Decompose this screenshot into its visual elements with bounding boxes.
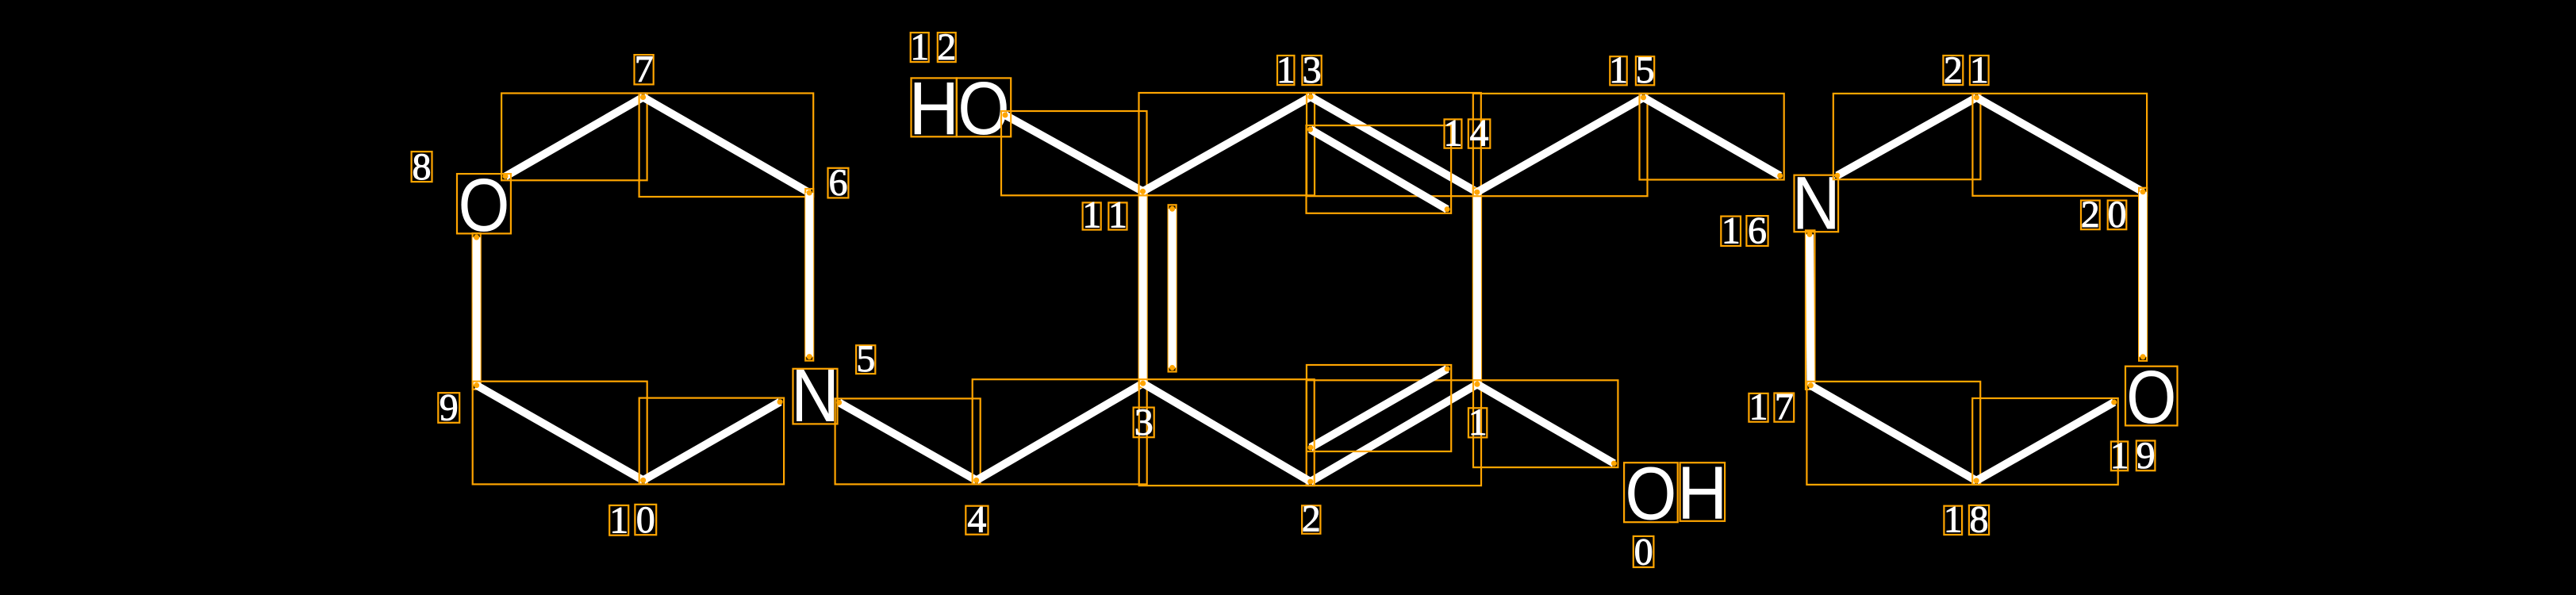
bond O12-C11 : orange bbox, white line, endpoint dots (1001, 111, 1147, 195)
bond C20-O19 : orange bbox, white line, endpoint dots (2139, 188, 2147, 361)
atom index label 0 digit 0 (1634, 532, 1654, 574)
svg-text:0: 0 (2108, 194, 2127, 236)
svg-text:1: 1 (1276, 49, 1296, 91)
bond C1-C2 main : orange bbox, white line, endpoint dots (1307, 380, 1481, 486)
bond C9-C10 : orange bbox, white line, endpoint dots (473, 382, 647, 485)
svg-text:4: 4 (1470, 112, 1489, 154)
bond C1-C2 inner line (aromatic double) : orange bbox, white line, endpoint dots (1307, 365, 1451, 451)
bond N16-C21 : orange bbox, white line, endpoint dots (1833, 94, 1981, 179)
svg-text:2: 2 (2081, 194, 2100, 236)
atom index label 8 digit 8 (412, 146, 432, 188)
atom index label 10 digit 1 (609, 499, 628, 541)
bond O8-C9 : orange bbox, white line, endpoint dots (473, 233, 481, 390)
svg-text:1: 1 (1609, 49, 1628, 91)
svg-text:1: 1 (1082, 194, 1101, 236)
atom index label 11 second digit 1 (1108, 194, 1127, 236)
atom index label 3 digit 3 (1134, 401, 1154, 443)
atom O12 hydroxyl H glyph : orange bounding box (912, 78, 957, 136)
atom index label 17 digit 7 (1774, 386, 1794, 428)
svg-text:1: 1 (2110, 435, 2129, 477)
atom N5 of left morpholine ring : orange bounding box (793, 369, 838, 424)
svg-text:7: 7 (635, 48, 654, 90)
atom index label 9 digit 9 (438, 387, 459, 429)
svg-text:1: 1 (1108, 194, 1127, 236)
atom index label 20 digit 2 (2081, 194, 2100, 236)
atom index label 11 digit 1 (1082, 194, 1101, 236)
svg-text:H: H (908, 67, 959, 151)
svg-text:8: 8 (413, 146, 432, 188)
bond C18-O19 : orange bbox, white line, endpoint dots (1972, 398, 2118, 485)
svg-text:7: 7 (1775, 386, 1794, 428)
atom index label 12 digit 1 (910, 26, 929, 68)
svg-text:0: 0 (1634, 532, 1653, 574)
svg-text:9: 9 (2136, 435, 2156, 477)
svg-text:4: 4 (967, 498, 986, 540)
atom index label 13 digit 3 (1302, 49, 1321, 91)
svg-text:2: 2 (937, 26, 956, 68)
atom index label 13 digit 1 (1276, 49, 1296, 91)
svg-text:1: 1 (1468, 401, 1488, 443)
atom index label 16 digit 1 (1721, 210, 1741, 252)
bond C4-C3 : orange bbox, white line, endpoint dots (973, 379, 1147, 484)
atom index label 14 digit 4 (1468, 112, 1491, 154)
bond N5-C4 : orange bbox, white line, endpoint dots (835, 398, 981, 484)
atom index label 7 digit 7 (635, 48, 654, 90)
bond C10-N5 : orange bbox, white line, endpoint dots (639, 398, 784, 485)
atom index label 5 digit 5 (856, 338, 875, 380)
atom index label 12 digit 2 (937, 26, 956, 68)
svg-text:N: N (791, 354, 839, 438)
atom index label 20 digit 0 (2108, 194, 2127, 236)
atom index label 19 digit 9 (2136, 435, 2156, 477)
bond C11-C13 : orange bbox, white line, endpoint dots (1139, 93, 1315, 195)
svg-text:1: 1 (609, 499, 628, 541)
atom index label 6 digit 6 (828, 162, 849, 204)
atom index label 2 digit 2 (1302, 497, 1321, 539)
atom O19 of right morpholine ring : orange bounding box (2125, 367, 2178, 426)
bond C15-N16 : orange bbox, white line, endpoint dots (1640, 94, 1784, 180)
svg-text:1: 1 (1722, 210, 1741, 252)
svg-text:8: 8 (1970, 499, 1989, 541)
bond C3-C11 inner line (aromatic double) : orange bbox, white line, endpoint dots (1169, 205, 1177, 371)
svg-text:0: 0 (636, 499, 655, 541)
bond C3-C11 main : orange bbox, white line, endpoint dots (1139, 187, 1147, 387)
svg-text:O: O (1625, 452, 1676, 536)
svg-text:9: 9 (440, 387, 459, 429)
svg-text:3: 3 (1303, 49, 1322, 91)
atom O0 hydroxyl H glyph : orange bounding box (1680, 463, 1726, 521)
atom O0 hydroxyl O glyph : orange bounding box (1624, 463, 1678, 522)
atom O12 hydroxyl O glyph : orange bounding box (957, 78, 1011, 136)
bond C6-N5 : orange bbox, white line, endpoint dots (805, 189, 813, 361)
atom N16 of right morpholine ring : orange bounding box (1795, 175, 1839, 232)
svg-text:2: 2 (1944, 49, 1963, 91)
bond C13-C14 inner line (aromatic double) : orange bbox, white line, endpoint dots (1307, 125, 1452, 213)
bond O8-C7 : orange bbox, white line, endpoint dots (501, 94, 647, 181)
svg-text:1: 1 (910, 26, 929, 68)
svg-text:2: 2 (1302, 497, 1321, 539)
svg-text:1: 1 (1749, 386, 1768, 428)
bond N16-C17 : orange bbox, white line, endpoint dots (1806, 230, 1814, 390)
bond C21-C20 : orange bbox, white line, endpoint dots (1972, 94, 2147, 196)
atom index label 16 digit 6 (1746, 210, 1768, 252)
svg-text:3: 3 (1134, 401, 1154, 443)
svg-text:6: 6 (1748, 210, 1767, 252)
atom index label 18 digit 8 (1969, 499, 1989, 541)
bond C1-O0 : orange bbox, white line, endpoint dots (1473, 380, 1618, 467)
bond C14-C1 : orange bbox, white line, endpoint dots (1473, 188, 1481, 388)
atom index label 10 digit 0 (635, 499, 656, 541)
atom index label 21 digit 1 (1970, 49, 1989, 91)
svg-text:5: 5 (1636, 49, 1655, 91)
svg-text:6: 6 (829, 162, 848, 204)
atom index label 21 digit 2 (1943, 49, 1963, 91)
atom index label 15 digit 5 (1636, 49, 1655, 91)
bond C2-C3 : orange bbox, white line, endpoint dots (1139, 379, 1315, 486)
bond C14-C15 : orange bbox, white line, endpoint dots (1473, 94, 1648, 196)
svg-text:1: 1 (1444, 112, 1463, 154)
svg-text:1: 1 (1970, 49, 1989, 91)
atom index label 17 digit 1 (1749, 386, 1768, 428)
atom index label 15 digit 1 (1609, 49, 1628, 91)
atom index label 1 digit 1 (1468, 401, 1488, 443)
svg-text:5: 5 (856, 338, 875, 380)
bond C13-C14 main : orange bbox, white line, endpoint dots (1307, 93, 1481, 196)
bond C7-C6 : orange bbox, white line, endpoint dots (639, 94, 814, 198)
atom index label 14 digit 1 (1444, 112, 1463, 154)
bond C17-C18 : orange bbox, white line, endpoint dots (1806, 382, 1980, 485)
atom index label 19 digit 1 (2110, 435, 2129, 477)
atom O8 of left morpholine ring : orange bounding box (457, 174, 511, 233)
svg-text:1: 1 (1944, 499, 1963, 541)
atom index label 4 digit 4 (966, 498, 988, 540)
atom index label 18 digit 1 (1944, 499, 1963, 541)
svg-text:O: O (2126, 355, 2176, 440)
